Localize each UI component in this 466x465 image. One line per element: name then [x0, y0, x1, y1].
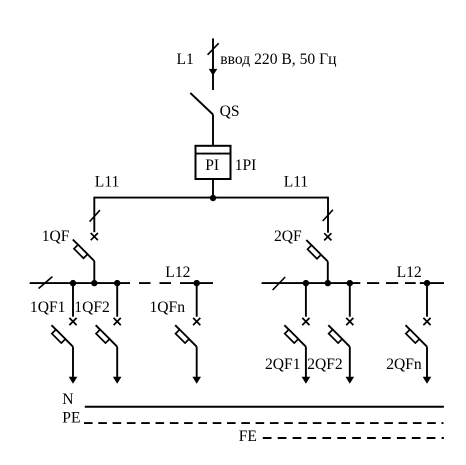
svg-text:2QF2: 2QF2	[307, 356, 343, 373]
svg-text:L12: L12	[397, 264, 422, 281]
slash marker left L11	[90, 210, 100, 221]
feeder breaker 1QF1	[52, 283, 78, 384]
svg-text:1QF: 1QF	[42, 228, 70, 245]
wire QS to meter	[212, 115, 214, 147]
junction dot left bus incoming	[91, 280, 97, 286]
svg-text:FE: FE	[239, 428, 257, 445]
svg-text:2QF: 2QF	[274, 228, 302, 245]
svg-text:L12: L12	[165, 264, 190, 281]
circuit breaker 1QF	[73, 233, 98, 261]
svg-text:1PI: 1PI	[235, 157, 257, 174]
svg-text:2QF1: 2QF1	[265, 356, 301, 373]
junction dot left bus feeder2	[114, 280, 120, 286]
svg-text:PE: PE	[62, 409, 80, 426]
circuit breaker 2QF	[306, 233, 331, 261]
svg-text:L1: L1	[177, 51, 194, 68]
junction dot right bus feeder1	[303, 280, 309, 286]
svg-text:2QFn: 2QFn	[386, 356, 422, 373]
feeder breaker 2QFn	[406, 283, 432, 384]
slash marker right bus	[273, 277, 286, 290]
feeder breaker 2QF1	[284, 283, 310, 384]
right bus L12 dashed part	[367, 282, 416, 284]
svg-text:PI: PI	[205, 157, 219, 174]
right bus L12 solid part	[262, 282, 361, 284]
wire left L11 drop	[93, 197, 95, 233]
feeder breaker 1QFn	[175, 283, 201, 384]
svg-text:1QFn: 1QFn	[150, 299, 186, 316]
svg-text:1QF1: 1QF1	[30, 299, 66, 316]
svg-text:N: N	[62, 391, 73, 408]
svg-text:1QF2: 1QF2	[74, 299, 110, 316]
junction dot left bus feederN	[194, 280, 200, 286]
bus FE	[263, 437, 444, 439]
wire input drop	[212, 38, 214, 90]
disconnector QS blade	[190, 93, 213, 115]
left bus L12 solid right part	[190, 282, 213, 284]
junction dot right bus feeder2	[347, 280, 353, 286]
svg-text:L11: L11	[95, 174, 120, 191]
single-line slash marker on input	[208, 43, 219, 55]
svg-text:ввод 220 В, 50 Гц: ввод 220 В, 50 Гц	[220, 51, 336, 68]
meter box 1PI	[196, 146, 231, 179]
slash marker right L11	[323, 210, 333, 221]
wire 2QF to right bus	[327, 262, 329, 284]
junction node dot	[210, 195, 216, 201]
wire L11 horizontal	[94, 197, 328, 199]
feeder breaker 2QF2	[328, 283, 354, 384]
svg-text:L11: L11	[284, 174, 309, 191]
wire right L11 drop	[327, 197, 329, 233]
junction dot right bus feederN	[424, 280, 430, 286]
flow arrow on input	[209, 69, 218, 76]
wire meter to node	[212, 179, 214, 198]
slash marker left bus	[39, 277, 53, 289]
wire 1QF to left bus	[93, 261, 95, 283]
left bus L12 solid part	[30, 282, 130, 284]
bus N	[85, 406, 444, 408]
junction dot right bus incoming	[325, 280, 331, 286]
left bus L12 dashed part	[139, 282, 190, 284]
junction dot left bus feeder1	[70, 280, 76, 286]
svg-text:QS: QS	[220, 103, 240, 120]
bus PE	[84, 422, 444, 424]
feeder breaker 1QF2	[96, 283, 122, 384]
right bus L12 solid right part	[420, 282, 444, 284]
